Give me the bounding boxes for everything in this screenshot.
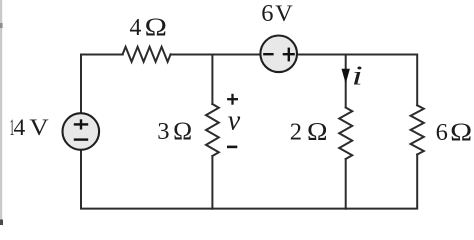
svg-text:3: 3 bbox=[157, 118, 169, 145]
wire: 2-ohm branch top lead bbox=[345, 55, 347, 108]
6V source plus sign bbox=[283, 53, 295, 55]
page-edge dark mark bottom-left bbox=[0, 220, 3, 226]
svg-text:4: 4 bbox=[14, 115, 26, 141]
wire: top middle (4-ohm to 6V source) with node at x=212.4 bbox=[171, 54, 260, 56]
page-edge gray strip (left) bbox=[0, 0, 2, 225]
6V source minus sign bbox=[263, 48, 295, 62]
voltage source 6V (circle) bbox=[260, 36, 297, 73]
label plus (v polarity) bbox=[227, 94, 238, 105]
wire: top-left segment (left corner to 4-ohm) bbox=[81, 55, 123, 113]
svg-text:Ω: Ω bbox=[145, 12, 167, 41]
wire: 3-ohm branch top lead bbox=[211, 55, 213, 105]
current arrow i (down) on 2-ohm branch bbox=[342, 69, 350, 84]
svg-text:Ω: Ω bbox=[173, 116, 192, 145]
resistor R 3-ohm (vertical) bbox=[206, 104, 219, 156]
14V source plus sign bbox=[74, 119, 88, 139]
resistor R 2-ohm (vertical) bbox=[339, 108, 352, 160]
wire: bottom middle segment bbox=[212, 208, 345, 210]
wire: top right of 6V source to top-right corner bbox=[298, 55, 418, 106]
resistor R 4-ohm (horizontal, top wire) bbox=[123, 47, 171, 62]
label minus (v polarity) bbox=[227, 146, 237, 149]
svg-text:Ω: Ω bbox=[450, 117, 472, 146]
svg-text:Ω: Ω bbox=[307, 116, 328, 145]
page-edge dark dash upper-left bbox=[0, 23, 3, 28]
svg-text:V: V bbox=[275, 1, 293, 27]
svg-text:v: v bbox=[228, 106, 241, 137]
14V source minus sign bbox=[74, 138, 88, 140]
wire: 2-ohm branch bottom lead bbox=[345, 159, 347, 209]
wire: left lower segment (14V bottom to bottom-left corner) bbox=[81, 151, 212, 209]
svg-text:V: V bbox=[29, 115, 48, 141]
svg-text:i: i bbox=[352, 61, 363, 91]
resistor R 6-ohm (vertical, right wire) bbox=[411, 105, 424, 154]
svg-text:4: 4 bbox=[130, 14, 142, 41]
wire: bottom right segment bbox=[346, 155, 418, 209]
svg-text:6: 6 bbox=[261, 0, 273, 27]
svg-text:6: 6 bbox=[436, 119, 448, 146]
wire: 3-ohm branch bottom lead bbox=[211, 156, 213, 209]
svg-text:2: 2 bbox=[290, 118, 302, 145]
voltage source 14V (circle) bbox=[63, 113, 100, 150]
